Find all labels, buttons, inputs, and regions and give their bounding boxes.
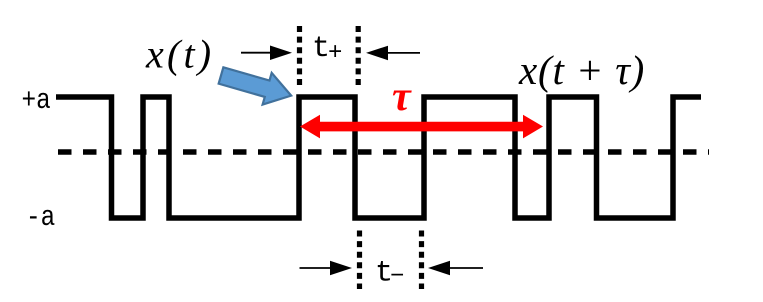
svg-text:+a: +a: [22, 85, 51, 117]
svg-text:+: +: [328, 40, 342, 67]
t- arrow pointing right: [300, 261, 353, 276]
t+ arrow pointing left: [366, 46, 420, 61]
dotted marker line bottom right (t- end): [419, 231, 424, 290]
dotted marker line top right (t+ end): [356, 26, 361, 87]
t+ arrow pointing right: [241, 46, 292, 61]
svg-text:−: −: [390, 264, 404, 291]
svg-text:x(t): x(t): [145, 32, 214, 77]
t- arrow pointing left: [428, 261, 483, 276]
zero-axis dashed line: [58, 149, 709, 155]
red double-headed arrow tau span: [300, 115, 543, 139]
dotted marker line bottom left (t- start): [357, 231, 362, 290]
svg-text:-a: -a: [26, 202, 55, 234]
dotted marker line top left (t+ start): [297, 26, 302, 87]
blue block arrow pointing to waveform: [216, 60, 295, 112]
svg-text:τ: τ: [392, 74, 412, 120]
waveform x(t) square wave: [56, 97, 701, 218]
svg-text:x(t + τ): x(t + τ): [518, 47, 645, 93]
